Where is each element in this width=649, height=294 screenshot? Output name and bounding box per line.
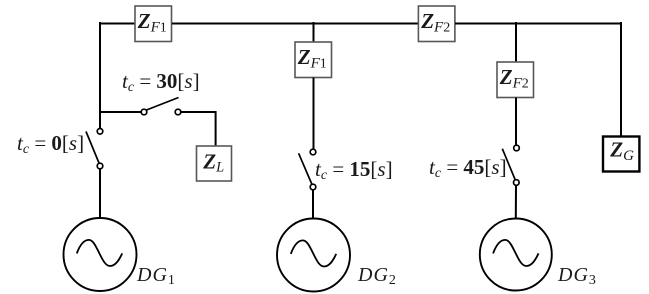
wire: top bus left segment	[100, 23, 135, 25]
wire: Z_F2 to switch t_c=45	[515, 98, 517, 146]
wire: bus to grid impedance Z_G	[620, 22, 622, 137]
switch t_c=30 (load connection switch)	[141, 98, 181, 115]
svg-text:tc = 30[s]: tc = 30[s]	[122, 69, 200, 95]
wire: horizontal branch to load switch	[99, 111, 141, 113]
generator DG2 (AC source)	[277, 219, 350, 292]
wire: middle feeder drop from bus	[313, 22, 315, 43]
impedance Z_G (grid equivalent)	[603, 137, 639, 172]
impedance Z_F2 (feeder branch to DG3)	[497, 62, 534, 98]
generator DG3 (AC source)	[480, 219, 552, 291]
impedance Z_F2 (bus section between node 2 and node 3)	[418, 6, 455, 42]
svg-text:tc = 15[s]: tc = 15[s]	[315, 157, 393, 183]
wire: switch to generator DG3	[515, 186, 517, 220]
switch t_c=45 (DG3 switch)	[502, 145, 519, 185]
wire: left feeder drop from bus	[99, 22, 101, 129]
impedance Z_F1 (bus section between node 1 and node 2)	[135, 6, 172, 42]
impedance Z_F1 (feeder branch to DG2)	[295, 42, 332, 78]
generator DG1 (AC source)	[64, 218, 137, 291]
wire: switch to generator DG2	[312, 190, 314, 219]
impedance Z_L (load)	[197, 146, 232, 181]
svg-text:tc = 45[s]: tc = 45[s]	[429, 155, 507, 181]
switch t_c=0 (DG1 switch)	[86, 129, 103, 169]
wire: right feeder drop from bus	[515, 22, 517, 63]
wire: switch to load Z_L	[181, 112, 216, 147]
wire: top bus right segment	[455, 23, 621, 25]
switch t_c=15 (DG2 switch)	[299, 149, 316, 190]
wire: Z_F1 to switch t_c=15	[313, 78, 315, 150]
wire: switch to generator DG1	[99, 169, 101, 219]
wire: top bus middle segment	[172, 23, 418, 25]
